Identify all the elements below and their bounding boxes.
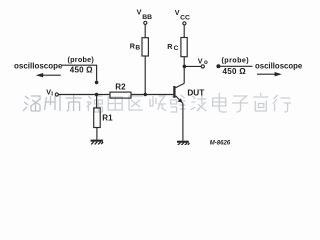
svg-text:C: C (174, 45, 179, 52)
svg-text:M-8626: M-8626 (210, 140, 231, 145)
svg-text:R: R (167, 42, 173, 51)
svg-text:oscilloscope: oscilloscope (255, 62, 303, 71)
svg-text:(probe): (probe) (68, 55, 95, 64)
svg-text:V: V (175, 8, 180, 17)
svg-text:R1: R1 (102, 114, 113, 123)
svg-text:(probe): (probe) (222, 55, 250, 64)
svg-text:450 Ω: 450 Ω (223, 67, 247, 76)
svg-text:B: B (135, 44, 140, 51)
svg-text:450 Ω: 450 Ω (70, 66, 93, 75)
svg-text:V: V (198, 56, 203, 65)
svg-text:CC: CC (180, 14, 190, 21)
svg-text:o: o (204, 59, 208, 66)
svg-text:BB: BB (142, 14, 152, 21)
svg-text:oscilloscope: oscilloscope (14, 62, 63, 71)
svg-text:V: V (137, 7, 142, 16)
svg-text:i: i (51, 91, 53, 98)
svg-text:DUT: DUT (187, 88, 204, 97)
svg-text:R2: R2 (115, 82, 126, 91)
